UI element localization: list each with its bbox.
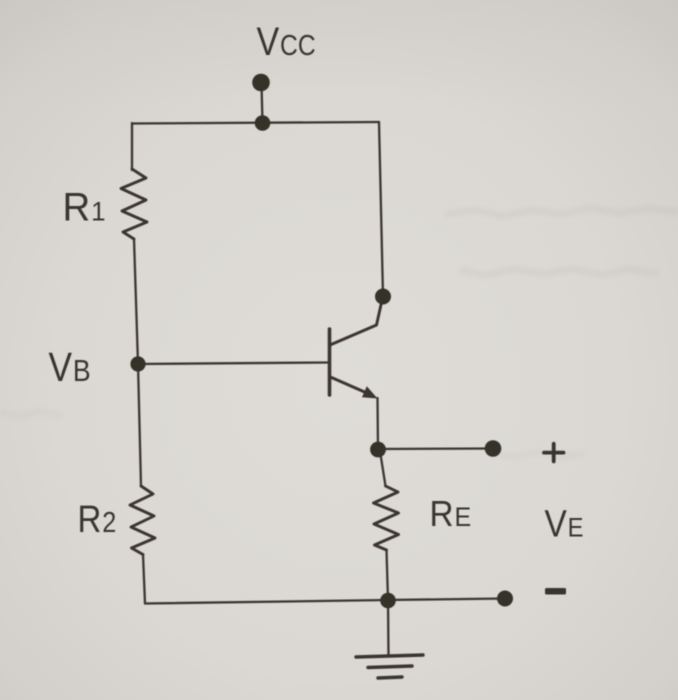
junction dot: bottom rail / ground (380, 593, 396, 609)
Vcc terminal dot (252, 74, 270, 92)
wire: base (VB to transistor) (138, 363, 328, 365)
wire: top rail (132, 122, 379, 124)
transistor Q1 collector lead (330, 298, 383, 345)
wire: left branch top (Vcc rail to R1) (131, 123, 133, 170)
junction dot: Vcc tap on top rail (255, 115, 271, 131)
terminal dot: + output (485, 440, 502, 457)
resistor R1 (121, 169, 147, 239)
wire: node VB to R2 (138, 364, 141, 486)
wire: emitter node to + terminal (378, 447, 493, 450)
transistor Q1 emitter arrowhead (362, 386, 378, 398)
resistor RE (374, 486, 399, 550)
wire: right branch (Vcc rail down to collector node) (379, 122, 383, 296)
node VB dot (130, 356, 145, 371)
svg-text:RE: RE (430, 495, 472, 534)
wire: bottom rail (145, 599, 505, 604)
faint show-through text from reverse side (0, 208, 678, 457)
wire: RE to bottom junction (387, 550, 389, 600)
junction dot: collector node (375, 289, 391, 305)
junction dot: emitter node (370, 442, 386, 458)
- polarity mark (545, 588, 566, 595)
transistor Q1 emitter lead (332, 378, 369, 394)
wire: R2 to bottom rail (143, 555, 145, 604)
wire: ground stem (387, 600, 390, 655)
ground symbol (356, 655, 423, 678)
wire: emitter node to RE (380, 451, 386, 486)
+ polarity mark (544, 444, 564, 462)
resistor R2 (130, 486, 155, 555)
wire: R1 to node VB (134, 239, 138, 364)
transistor Q1 base bar (328, 329, 332, 395)
terminal dot: - output (497, 591, 513, 607)
wire: Vcc stem (262, 84, 263, 123)
wire: emitter down to node (376, 398, 379, 450)
